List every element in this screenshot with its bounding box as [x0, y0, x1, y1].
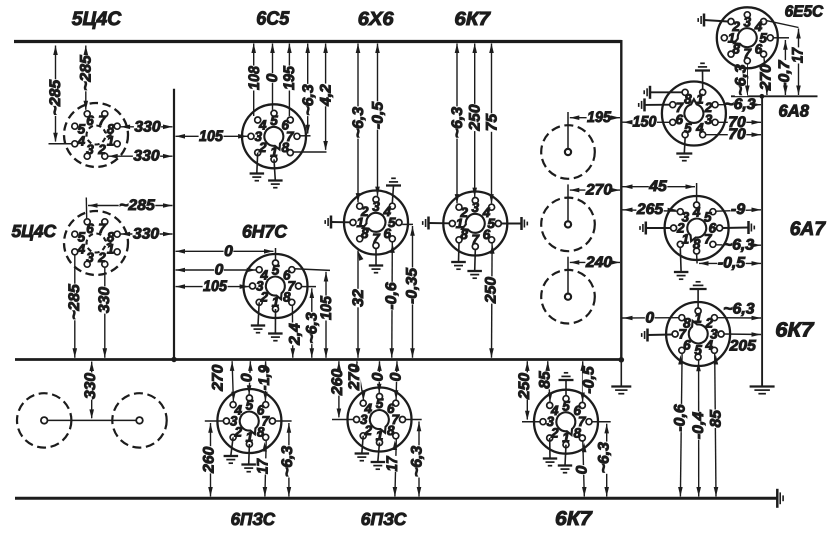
label 105 (6Н7С pin3)	[203, 281, 228, 293]
svg-text:2,4: 2,4	[286, 323, 303, 346]
wire 0 arrow to 6Н7С pin5 stub	[275, 248, 277, 260]
wire ~6,3 from 6Е5С pin7 down to bus	[746, 64, 748, 95]
svg-text:~6,3: ~6,3	[300, 84, 317, 116]
label 0 (6С5 pin5)	[266, 73, 278, 83]
label 240 (C3)	[585, 256, 612, 268]
label 17 (6ПЗС1 pin8)	[257, 458, 269, 474]
svg-text:~6,3: ~6,3	[449, 106, 466, 138]
label 260 (6ПЗС1 pin3)	[203, 446, 215, 473]
wire 0 arrow to 6Н7С pin4	[176, 269, 257, 271]
wire 330 down from 5Ц4С-2 pin2	[104, 268, 106, 358]
wire connecting dashed pair	[48, 419, 137, 421]
label 270 (C2)	[585, 184, 612, 196]
svg-text:~285: ~285	[66, 284, 83, 320]
label ~6,3 (6С5 pin7)	[302, 84, 314, 116]
svg-text:5: 5	[376, 396, 384, 411]
label 260 (6ПЗС2 pin3)	[331, 368, 343, 395]
ground 6Х6 pin7	[369, 249, 383, 273]
ground 6К7b pin2	[543, 438, 557, 466]
wire 17 pointer and arrow (6Е5С)	[762, 20, 799, 28]
svg-text:-0,35: -0,35	[404, 267, 421, 303]
ground 6А7 pin1	[674, 248, 689, 280]
wire 260 from bus to 6ПЗС2 pin3 stub	[332, 419, 353, 421]
wire ~6,3 from 6Н7С pin7 stub down to bus	[302, 286, 316, 288]
svg-text:8: 8	[683, 315, 691, 330]
svg-text:4: 4	[233, 402, 242, 417]
svg-text:1: 1	[562, 430, 570, 445]
svg-text:8: 8	[684, 91, 692, 106]
svg-text:6: 6	[86, 221, 94, 236]
svg-text:0: 0	[215, 262, 224, 279]
wire 0 from bus to 6ПЗС2 pin5	[378, 361, 380, 393]
svg-text:105: 105	[318, 296, 335, 320]
tube socket 6ПЗС (right)	[348, 388, 412, 452]
svg-text:~6,3: ~6,3	[409, 445, 426, 477]
svg-text:4: 4	[692, 205, 701, 220]
wire -0,6 from 6К7r pin6 down to bottom bus	[680, 354, 682, 497]
label 0 (6Н7С pin5)	[224, 245, 234, 257]
wire 205 from 6К7r pin3 to right line	[724, 333, 761, 336]
svg-text:330: 330	[134, 118, 161, 135]
svg-text:0: 0	[573, 465, 590, 474]
label 85 (6К7r pin4)	[710, 410, 722, 429]
label 330 (5Ц4С pin2)	[133, 150, 160, 162]
svg-text:8: 8	[283, 290, 291, 305]
svg-text:~285: ~285	[77, 55, 94, 91]
label ~6,3 (6Х6 pin2)	[353, 106, 365, 138]
label ~285 (5Ц4С-2 pin4)	[68, 284, 80, 321]
label 270 (6ПЗС1 pin4)	[212, 364, 224, 391]
wire 0 from 6К7b pin8 down to bottom bus	[583, 441, 585, 496]
svg-text:250: 250	[482, 276, 499, 304]
wire 105 arrow to 6Н7С pin3	[176, 286, 250, 288]
svg-text:195: 195	[587, 109, 611, 126]
wire top supply bus	[14, 40, 622, 43]
capacitor can C1 (dashed circle)	[541, 112, 595, 179]
svg-text:0: 0	[645, 309, 654, 326]
svg-text:150: 150	[633, 114, 657, 131]
label -0,4 (6К7r pin5)	[692, 411, 704, 439]
svg-text:-0,5: -0,5	[370, 101, 387, 129]
label ~285 (5Ц4С pin6)	[80, 55, 92, 92]
ground 6ПЗС2 pin1	[371, 443, 386, 470]
svg-text:4: 4	[258, 118, 267, 133]
ground 6ПЗС1 pin1	[241, 444, 256, 472]
svg-text:0: 0	[224, 243, 233, 260]
tube socket 6К7 (top)	[443, 192, 507, 256]
svg-text:6ПЗС: 6ПЗС	[361, 509, 407, 529]
wire ~285 arrow to 5Ц4С pin4 stub	[49, 143, 72, 145]
ground 6Х6 pin4	[386, 178, 401, 203]
svg-text:2: 2	[360, 204, 369, 219]
wire 195 arrow to 6С5 pin6	[288, 44, 290, 117]
wire 0 from bus to 6ПЗС1 pin5	[249, 361, 250, 394]
svg-text:-0,5: -0,5	[718, 255, 746, 272]
ground 6С5 pin1	[268, 159, 283, 187]
wire 330 arrow from 5Ц4С pin2	[108, 155, 172, 157]
svg-text:330: 330	[133, 226, 160, 243]
svg-text:260: 260	[329, 368, 346, 396]
ground at right reference line	[750, 387, 775, 394]
svg-text:270: 270	[346, 363, 363, 391]
wire 85 from 6К7r pin4 down to bottom bus	[715, 354, 716, 497]
label 70 (6А8 pin4)	[728, 129, 747, 141]
wire 17 from 6ПЗС1 pin8 down to bottom bus	[265, 441, 266, 497]
svg-text:17: 17	[255, 458, 272, 474]
label 270 (6ПЗС2 pin4)	[349, 363, 361, 390]
label 0 (6Н7С pin4)	[214, 264, 224, 276]
svg-text:1: 1	[696, 91, 704, 106]
wire 330 arrow from 5Ц4С pin8	[121, 126, 173, 128]
label -9 (6А7 pin5)	[730, 204, 745, 216]
ground 6Н7С pin2	[251, 302, 265, 332]
svg-text:330: 330	[133, 148, 160, 165]
wire ~285 down from 5Ц4С-2 pin4	[74, 255, 76, 358]
svg-text:~285: ~285	[119, 197, 155, 214]
node junction box corner	[619, 357, 625, 363]
ground 6А7 pin2	[640, 222, 670, 235]
svg-text:8: 8	[732, 42, 740, 57]
component left dashed circle B	[112, 393, 166, 447]
label 195 (C1)	[587, 112, 612, 124]
ground 6К7 pin7	[467, 250, 482, 279]
label 17 (6ПЗС2 pin8)	[386, 456, 398, 472]
svg-text:6Х6: 6Х6	[358, 9, 394, 30]
tube socket 6С5	[242, 104, 306, 168]
svg-text:260: 260	[201, 446, 218, 474]
wire ~6,3 from 6К7b pin7 stub down to bottom bus	[592, 421, 611, 423]
label ~285 (5Ц4С pin4)	[49, 79, 61, 116]
svg-text:270: 270	[210, 364, 227, 392]
label 4,2 (6С5 pin8)	[320, 84, 332, 107]
label 250 (6К7b pin3)	[518, 372, 530, 399]
svg-text:3: 3	[86, 250, 94, 265]
ground 6А8 pin1	[695, 63, 710, 89]
tube socket 6Е5С	[717, 7, 778, 68]
wire -1,9 from bus to 6ПЗС1 pin6	[264, 361, 266, 401]
svg-text:270: 270	[585, 182, 613, 199]
ground at bottom bus right end	[777, 489, 783, 508]
svg-text:-0,7: -0,7	[776, 59, 793, 88]
wire main box right edge	[620, 40, 622, 361]
wire 32 from 6Х6 edge down to bus	[357, 251, 359, 358]
svg-text:5: 5	[272, 263, 280, 278]
label 75 (6К7 pin4)	[486, 113, 498, 132]
svg-text:0: 0	[369, 372, 386, 381]
svg-text:6: 6	[483, 227, 491, 242]
wire 2,4 from 6Н7С pin8 down to bus	[291, 306, 293, 358]
svg-text:6ПЗС: 6ПЗС	[231, 509, 276, 529]
wire ~6,3 from 6К7r pin2 to right line	[717, 317, 761, 319]
component left dashed circle A	[17, 393, 71, 447]
label 330 (5Ц4С pin8)	[134, 121, 161, 133]
wire 270 arrow from C2 to box edge	[570, 189, 620, 191]
svg-text:6: 6	[383, 226, 391, 241]
ground 6С5 pin2	[250, 153, 265, 181]
node junction right bus	[760, 94, 765, 99]
svg-text:85: 85	[707, 409, 724, 427]
label 330 (5Ц4С-2 pin2)	[98, 286, 110, 313]
label 45 (6А7 pin4)	[649, 180, 668, 192]
tube socket 6К7 (right)	[666, 302, 730, 366]
node junction vertical ref / middle bus	[171, 357, 176, 362]
label 0 (6ПЗС2 pin5)	[372, 372, 384, 382]
label 70 (6А8 pin3)	[728, 116, 747, 128]
svg-text:3: 3	[744, 15, 752, 30]
wire 330 from middle bus down to pair	[91, 362, 93, 419]
svg-text:-9: -9	[731, 201, 746, 218]
label -1,9 (6ПЗС1 pin6)	[258, 365, 270, 391]
capacitor can C2 (dashed circle)	[541, 184, 595, 251]
wire 45 arrow from box edge to 6А7 pin4 stub	[696, 183, 698, 202]
label 105 (6С5 pin3)	[199, 130, 224, 142]
label ~6,3 (6Е5С pin7)	[735, 64, 747, 96]
svg-text:5Ц4С: 5Ц4С	[72, 8, 122, 30]
label 330 (dashed pair)	[85, 372, 97, 399]
svg-text:4: 4	[695, 121, 704, 136]
label -0,5 (6А7 pin8)	[717, 257, 745, 269]
wire -0,6 from 6Х6 pin6 down to bus	[391, 242, 394, 358]
ground 6Н7С pin1	[268, 309, 283, 341]
svg-text:105: 105	[203, 278, 227, 295]
svg-text:8: 8	[257, 425, 265, 440]
label 32 (6Х6)	[353, 289, 365, 308]
wire 270 from bus to 6ПЗС1 pin4	[232, 361, 233, 401]
wire ~6,3 from 6ПЗС1 pin7 stub down to bottom bus	[276, 420, 292, 422]
svg-text:~285: ~285	[47, 79, 64, 115]
label -0,5 (6Х6 pin3)	[372, 101, 384, 129]
svg-text:8: 8	[693, 236, 701, 251]
svg-text:8: 8	[361, 226, 369, 241]
svg-text:5: 5	[694, 342, 702, 357]
wire 108 arrow to 6С5 pin4	[253, 44, 255, 117]
label 0 (6К7r pin8)	[645, 312, 655, 324]
svg-text:6К7: 6К7	[555, 508, 593, 530]
label 0 (6К7b pin8)	[576, 465, 588, 475]
ground 6К7r pin7	[642, 329, 672, 342]
label 2,4 (6Н7С pin8)	[289, 323, 301, 346]
svg-text:1: 1	[376, 428, 384, 443]
ground at box corner	[611, 361, 631, 394]
svg-text:4: 4	[705, 338, 714, 353]
tube socket 6Н7С	[244, 254, 308, 318]
svg-text:3: 3	[86, 142, 94, 157]
svg-text:6: 6	[755, 42, 763, 57]
svg-text:108: 108	[246, 66, 263, 90]
svg-text:8: 8	[387, 423, 395, 438]
svg-text:8: 8	[107, 230, 115, 245]
capacitor can C3 (dashed circle)	[541, 257, 595, 324]
svg-text:330: 330	[96, 286, 113, 313]
wire 0 arrow to 6С5 pin5	[272, 44, 274, 110]
svg-text:32: 32	[350, 289, 367, 307]
wire 250 arrow to 6К7 pin3	[474, 44, 476, 197]
tube socket 6А7	[665, 196, 729, 260]
svg-text:2: 2	[97, 142, 106, 157]
label ~6,3 (6ПЗС1 pin7)	[282, 445, 294, 477]
svg-text:5: 5	[78, 122, 86, 137]
ground 6А8 pin5	[676, 138, 692, 161]
label 17 (6Е5С)	[792, 47, 804, 63]
wire 4,2 arrow to 6С5 pin8 stub	[293, 151, 326, 153]
wire 85 from bus to 6К7b pin4	[548, 361, 550, 402]
label 250 (6К7 pin6)	[485, 276, 497, 303]
wire ~285 arrow to 5Ц4С pin6	[85, 46, 87, 110]
wire ~6,3 arrow to 6К7 pin2	[456, 44, 458, 204]
svg-text:8: 8	[281, 140, 289, 155]
svg-text:105: 105	[199, 128, 223, 145]
svg-text:6Е5С: 6Е5С	[785, 4, 824, 21]
svg-text:250: 250	[466, 104, 483, 132]
wire -0,5 from bus to 6К7b pin6	[582, 361, 584, 402]
wire 0 from bus to 6ПЗС2 pin6	[395, 361, 398, 399]
svg-text:5: 5	[246, 398, 254, 413]
wire -9 from 6А7 pin5 to right line	[716, 210, 761, 211]
svg-text:-0,6: -0,6	[383, 282, 400, 310]
wire -0,4 from 6К7r pin5 down to bottom bus	[698, 360, 700, 496]
wire 70 from 6А8 pin4 to right line	[705, 134, 761, 136]
svg-text:8: 8	[460, 227, 468, 242]
svg-text:17: 17	[384, 455, 401, 471]
svg-text:5: 5	[684, 121, 692, 136]
svg-text:6К7: 6К7	[454, 9, 491, 30]
svg-text:6К7: 6К7	[775, 319, 815, 342]
svg-text:8: 8	[573, 425, 581, 440]
svg-text:3: 3	[705, 112, 713, 127]
ground 6ПЗС1 pin2	[224, 437, 239, 463]
wire 150 arrow from box edge to 6А8 pin6	[623, 121, 670, 123]
wire ~6,3 from 6А8 pin2 to right line	[718, 104, 761, 106]
svg-text:3: 3	[682, 209, 690, 224]
label ~6,3 (6К7b pin7)	[598, 442, 610, 474]
label ~285 (5Ц4С-2)	[119, 199, 156, 211]
wire 195 arrow from C1 to box edge	[570, 117, 620, 119]
svg-text:4: 4	[260, 267, 269, 282]
wire 270 from 6Е5С pin6 down to bus	[764, 57, 767, 95]
ground 6К7b pin1	[558, 445, 572, 473]
wire 265 arrow from box edge to 6А7 pin3	[623, 210, 678, 211]
tube socket 6Х6	[344, 191, 408, 255]
wire 105 from 6Н7С pin6 stub down to bus	[294, 269, 330, 271]
wire 75 arrow to 6К7 pin4	[491, 44, 493, 204]
svg-text:70: 70	[728, 126, 746, 143]
svg-text:6Н7С: 6Н7С	[242, 222, 288, 242]
wire ~6,3 from 6ПЗС2 pin7 stub down to bottom bus	[406, 419, 422, 421]
svg-text:8: 8	[107, 122, 115, 137]
svg-text:265: 265	[636, 201, 664, 218]
ground 6А8 pin7	[639, 98, 670, 111]
svg-text:0: 0	[264, 73, 281, 82]
wire right top bus (6E5C section)	[731, 95, 818, 97]
wire right reference line	[761, 96, 763, 385]
svg-text:75: 75	[483, 113, 500, 131]
label 195 (6С5 pin6)	[284, 66, 296, 91]
wire 330 arrow from 5Ц4С-2 pin8	[121, 233, 173, 235]
label 0 (6ПЗС1 pin5)	[241, 373, 253, 383]
label 330 (5Ц4С-2 pin8)	[132, 228, 159, 240]
ground 6А7 pin6	[723, 221, 755, 234]
svg-text:2: 2	[97, 250, 106, 265]
ground 6К7b pin5	[559, 373, 574, 396]
label 85 (6К7b pin4)	[539, 371, 551, 390]
label 270 (6Е5С pin6)	[760, 64, 772, 91]
svg-text:17: 17	[789, 47, 806, 63]
svg-text:1: 1	[246, 429, 254, 444]
label 108 (6С5 pin4)	[248, 66, 260, 91]
svg-text:~6,3: ~6,3	[723, 301, 755, 318]
label -0,35 (6Х6 pin5)	[406, 268, 418, 305]
svg-text:85: 85	[537, 371, 554, 389]
ground 6Х6 pin1	[325, 216, 350, 229]
svg-text:6А7: 6А7	[790, 218, 827, 240]
svg-text:~6,3: ~6,3	[596, 442, 613, 474]
label ~6,3 (6ПЗС2 pin7)	[411, 445, 423, 477]
svg-text:6С5: 6С5	[256, 9, 289, 30]
wire middle chassis bus	[15, 358, 623, 361]
ground 6ПЗС2 pin2	[355, 436, 370, 461]
wire 250 from 6К7 pin6 down to bus	[491, 243, 494, 358]
svg-text:0: 0	[238, 373, 255, 382]
svg-text:5Ц4С: 5Ц4С	[12, 221, 57, 241]
wire -0,5 from 6А7 pin8 stub to right line	[696, 254, 699, 263]
svg-text:0: 0	[387, 372, 404, 381]
label 150 (6А8 pin6)	[632, 116, 657, 128]
ground 6К7r pin1	[690, 282, 707, 308]
tube socket 6ПЗС (left)	[217, 389, 281, 453]
wire ~6,3 from 6А7 pin7 to right line	[716, 244, 761, 246]
svg-text:2: 2	[731, 19, 740, 34]
ground 6К7 pin1	[423, 217, 449, 230]
wire ~6,3 arrow to 6Х6 pin2	[357, 44, 359, 203]
tube socket 5Ц4С (lower, dashed)	[64, 211, 128, 275]
wire 70 from 6А8 pin3 to right line	[718, 121, 761, 123]
svg-text:2: 2	[459, 205, 468, 220]
svg-text:45: 45	[648, 178, 667, 195]
svg-text:3: 3	[472, 200, 480, 215]
svg-text:4: 4	[550, 403, 559, 418]
wire 250 from bus to 6К7b pin3 stub	[522, 421, 540, 423]
svg-text:1: 1	[272, 294, 280, 309]
label 250 (6К7 pin3)	[469, 104, 481, 131]
tube socket 6К7 (bottom)	[534, 390, 598, 454]
wire 260 from 6ПЗС1 pin3 stub down to bottom bus	[205, 420, 223, 422]
wire bottom chassis bus	[15, 497, 777, 500]
ground 6А8 pin8	[644, 86, 682, 99]
svg-text:5: 5	[270, 113, 278, 128]
svg-text:1: 1	[694, 311, 702, 326]
wire ~285 arrow from 5Ц4С-2 pin6 tick	[85, 198, 87, 219]
tube socket 5Ц4С (upper, dashed)	[64, 103, 128, 167]
label 265 (6А7 pin3)	[636, 204, 663, 216]
ground 6К7 pin5	[502, 217, 528, 230]
svg-text:~6,3: ~6,3	[350, 106, 367, 138]
svg-text:-0,4: -0,4	[690, 411, 707, 439]
svg-text:~6,3: ~6,3	[279, 445, 296, 477]
ground 6Е5С pin2	[698, 14, 728, 27]
svg-text:6: 6	[86, 113, 94, 128]
label 0 (6ПЗС2 pin6)	[390, 372, 402, 382]
svg-text:195: 195	[281, 66, 298, 90]
label -0,6 (6К7r pin6)	[674, 404, 686, 432]
svg-text:6А8: 6А8	[779, 102, 810, 121]
label -0,6 (6Х6 pin6)	[385, 282, 397, 310]
wire 17 from 6ПЗС2 pin8 down to bottom bus	[395, 439, 396, 496]
svg-text:330: 330	[82, 372, 99, 399]
svg-text:5: 5	[78, 230, 86, 245]
wire -0,7 from 6Е5С pin5 stub	[774, 37, 790, 39]
label ~6,3 (6А8 pin2)	[724, 98, 756, 110]
label ~6,3 (6К7 pin2)	[452, 106, 464, 138]
